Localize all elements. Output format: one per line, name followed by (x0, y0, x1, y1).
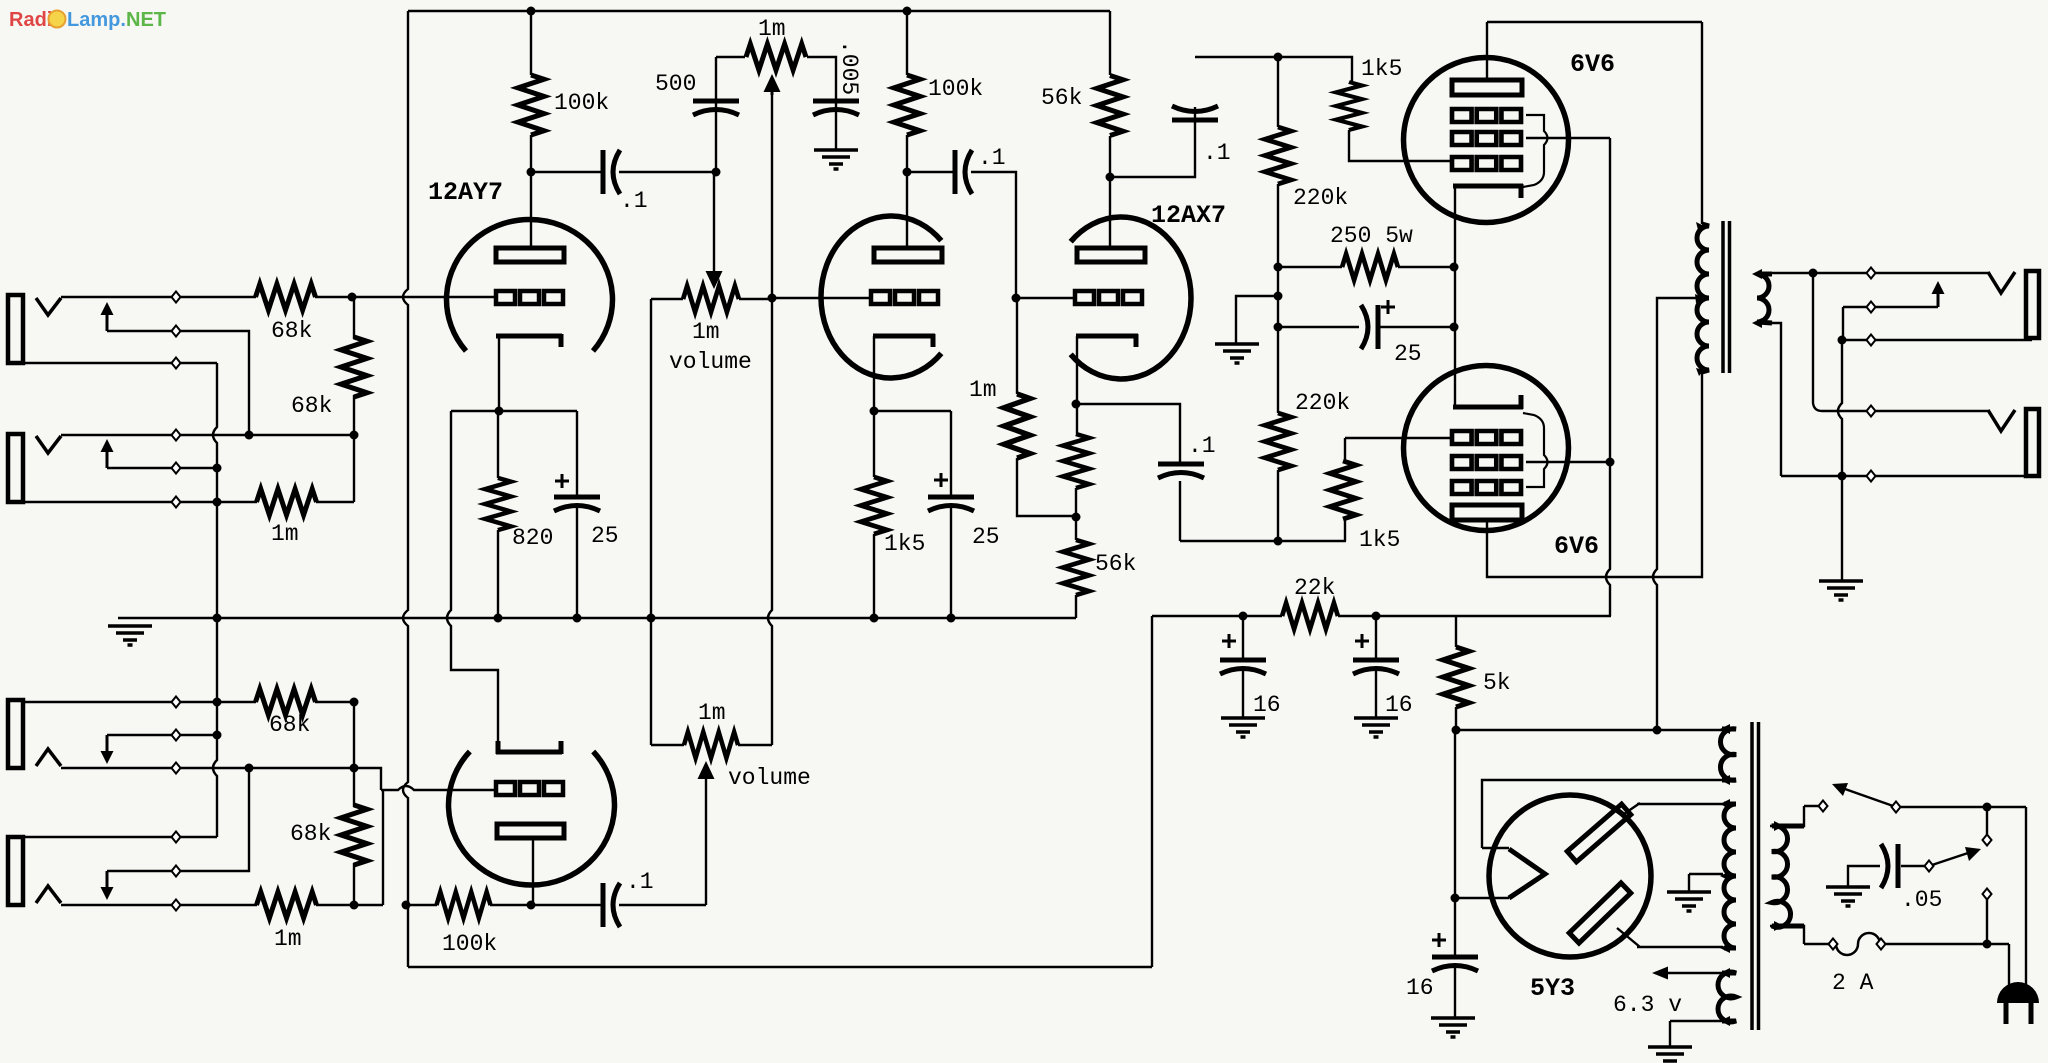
fuse 2A (1836, 933, 1880, 955)
speaker jack1 switch arrow (1937, 293, 1940, 307)
resistor 1m grid leak ch4 (257, 892, 317, 918)
wire PT HV center tap (1689, 874, 1723, 892)
svg-text:68k: 68k (291, 393, 332, 419)
tube V1a plate (496, 248, 564, 262)
wire V1b grid leak vertical (382, 790, 384, 905)
resistor 250 5w (1342, 254, 1398, 280)
node B+ rail taps (527, 7, 536, 16)
svg-text:NET: NET (126, 9, 166, 31)
svg-text:68k: 68k (271, 318, 312, 344)
capacitor 16 filter1 (1220, 660, 1266, 674)
wire 25uF V1a leg (576, 411, 578, 618)
tube V3 grid (1075, 291, 1142, 304)
wire V1b grid with hop at 406 (381, 786, 496, 790)
wire jack2 sleeve row (24, 501, 217, 503)
speaker jack1 sleeve (2026, 271, 2039, 338)
tube V1a 12AY7 envelope (446, 219, 612, 351)
resistor 68k ch3 (256, 689, 316, 715)
svg-text:68k: 68k (290, 821, 331, 847)
wire OT primary bottom to lower plate (1487, 372, 1702, 577)
svg-text:1m: 1m (969, 377, 997, 403)
node volume hot (768, 294, 777, 303)
node 6V6 cathode taps (1450, 263, 1459, 272)
resistor 1k5 V3 cathode (1063, 434, 1089, 488)
wire volume1 wiper stem (713, 172, 715, 272)
svg-text:5k: 5k (1483, 670, 1511, 696)
tube V1b plate (497, 824, 564, 838)
svg-text:1m: 1m (274, 926, 302, 952)
wire V1a cathode leg (498, 336, 499, 618)
ground .05 cap (1826, 887, 1870, 906)
svg-text:220k: 220k (1293, 185, 1348, 211)
output transformer core (1723, 221, 1730, 373)
wire speaker ground vertical with hop at 411 (1838, 307, 1843, 581)
wire 1k5 to 6V6 grid (1349, 130, 1452, 161)
wire 5Y3 plate bottom lead (1617, 928, 1723, 947)
svg-text:1m: 1m (758, 16, 786, 42)
wire V1a cathode row (451, 410, 577, 412)
svg-text:6.3 v: 6.3 v (1613, 992, 1682, 1018)
wire volume1 left (651, 298, 683, 300)
node PI chain taps (1274, 53, 1283, 62)
wire speaker switch row (1843, 306, 1938, 308)
wire B+ bottom bus (408, 966, 1152, 968)
wire V1b plate lead (532, 838, 534, 905)
tube V3 cathode (1076, 334, 1138, 347)
capacitor 25 6V6 bypass (1361, 305, 1378, 349)
wire 25uF V2 leg (950, 411, 952, 618)
wire 6V6 cathodes link (1454, 186, 1456, 407)
node V1a cathode (495, 407, 504, 416)
node ch3 tip (245, 764, 254, 773)
wire lower 6V6 screen lead (1526, 461, 1610, 463)
wire input ch3 switch row (107, 734, 217, 736)
tube 6V6 lower envelope (1404, 366, 1569, 531)
svg-text:.1: .1 (1203, 140, 1231, 166)
input jack2 sleeve (8, 434, 23, 502)
svg-text:.1: .1 (620, 188, 648, 214)
capacitor 16 filter3 (1432, 957, 1478, 971)
wire B+ riser right (1151, 616, 1153, 967)
wire B+1 row to PT (1456, 729, 1722, 731)
capacitor .1 V1a coupling (603, 150, 620, 194)
wire lower speaker jack tip row (1822, 410, 1990, 412)
wire 250 5w row (1278, 266, 1454, 268)
svg-text:.05: .05 (1901, 887, 1942, 913)
svg-text:100k: 100k (928, 76, 983, 102)
ground filter3 (1431, 1018, 1475, 1037)
terminal input diamonds (172, 292, 181, 303)
svg-text:Radi: Radi (9, 9, 52, 31)
speaker jack1 tip (1988, 272, 2015, 293)
resistor 1m V3 grid leak (1004, 394, 1030, 458)
tube V2 plate (874, 248, 942, 262)
svg-text:6V6: 6V6 (1570, 50, 1615, 79)
wire 56k top feed (1109, 11, 1111, 75)
svg-text:2 A: 2 A (1832, 970, 1874, 996)
capacitor 16 filter2 (1353, 660, 1399, 674)
node V1a plate (527, 168, 536, 177)
svg-text:6V6: 6V6 (1554, 532, 1599, 561)
wire 5k leg (1455, 616, 1457, 730)
wire input ch1 tip with 68k gap (61, 296, 496, 298)
node V3 grid (1012, 294, 1021, 303)
node filters (1239, 612, 1248, 621)
tube V2 grid (871, 291, 938, 304)
wire input ch3 sleeve row with 68k gap (24, 701, 354, 703)
wire V1b cathode feed with hop at 618 (447, 411, 498, 741)
speaker jack2 tip (1988, 410, 2015, 431)
volume1 wiper arrow (706, 271, 723, 289)
input jack3 tip (36, 749, 61, 766)
svg-text:1k5: 1k5 (1361, 56, 1402, 82)
svg-text:25: 25 (591, 523, 619, 549)
capacitor .1 V1b coupling (603, 883, 620, 927)
input jack4 tip (36, 886, 61, 903)
node ch1 grid (348, 293, 357, 302)
terminal speaker diamonds (1867, 268, 1876, 279)
wire PT primary bottom (1770, 926, 1833, 944)
svg-text:Lamp.: Lamp. (67, 9, 126, 31)
wire mains fuse row (1881, 943, 2009, 945)
resistor 68k ch3-4 vertical (341, 805, 367, 865)
power transformer core (1752, 722, 1759, 1030)
wire tone wiper stem (771, 95, 773, 298)
resistor 56k V3 tail (1063, 540, 1089, 595)
wire input ch4 switch row (107, 768, 249, 871)
svg-text:56k: 56k (1095, 551, 1136, 577)
node PI out (1274, 537, 1283, 546)
svg-text:volume: volume (669, 349, 752, 375)
input jack2 tip (36, 436, 61, 453)
resistor 220k lower (1265, 413, 1291, 470)
capacitor .05 line (1881, 844, 1898, 888)
tube 6V6 lower cathode (1453, 395, 1523, 409)
wire cap .1 top to PI node (1195, 57, 1352, 82)
svg-text:220k: 220k (1295, 390, 1350, 416)
svg-text:12AX7: 12AX7 (1151, 201, 1226, 230)
input jack4 switch arrow (106, 871, 109, 888)
ground PT 6.3v (1648, 1047, 1692, 1063)
wire 1k5 V2 leg (873, 411, 875, 618)
capacitor .1 V2 coupling (955, 150, 972, 194)
wire OT secondary top to jack (1758, 272, 1990, 274)
resistor 1m grid leak ch1 (257, 489, 317, 515)
capacitor 25 V1 cathode (554, 497, 600, 511)
resistor 22k dropper (1282, 603, 1338, 629)
wire tone pot left (716, 56, 745, 58)
ground speaker (1819, 581, 1863, 600)
wire input ch4 sleeve row (24, 836, 217, 838)
speaker jack2 sleeve (2026, 409, 2039, 476)
wire mains switch row (1896, 806, 2026, 808)
tube 6V6 upper grids (1452, 109, 1521, 122)
wire input ch4 tip row with 1m gap (61, 904, 383, 906)
svg-text:100k: 100k (442, 931, 497, 957)
svg-text:16: 16 (1253, 692, 1281, 718)
wire 56k V3 plate (1109, 136, 1111, 248)
power transformer 6.3v winding (1718, 972, 1736, 1022)
tube V2 envelope (821, 216, 941, 378)
arrow 6.3v indicator (1652, 967, 1668, 980)
tube V3 plate (1077, 248, 1145, 262)
tube 6V6 lower beam link (1523, 413, 1548, 487)
svg-text:.1: .1 (626, 869, 654, 895)
tube 5Y3 plate top (1567, 804, 1631, 862)
wire volume2 wiper stem (705, 778, 707, 905)
power transformer HV winding (1724, 804, 1736, 948)
power transformer primary winding (1772, 826, 1804, 928)
svg-text:5Y3: 5Y3 (1530, 974, 1575, 1003)
logo RadioLamp.NET (9, 9, 166, 31)
wire 68k2 chain vertical (353, 297, 355, 502)
svg-text:25: 25 (1394, 341, 1422, 367)
wire PT 6.3v ground (1670, 1021, 1722, 1047)
node speaker taps (1809, 269, 1818, 278)
potentiometer 1m volume2 (684, 732, 738, 758)
input jack1 switch arrow (106, 314, 109, 331)
wire B+ top rail (408, 10, 1110, 12)
wire input ch3 tip row (61, 768, 381, 790)
wire jack sleeve row lower (1781, 475, 2032, 477)
wire upper 6V6 screen lead (1526, 137, 1610, 139)
wire PT 6.3v row (1655, 972, 1722, 974)
tube V2 cathode (873, 334, 935, 347)
wire lower 6V6 grid (1345, 437, 1452, 439)
capacitor .1 PI top (1172, 106, 1218, 120)
wire 1m grid leak ch1 row (217, 501, 354, 503)
svg-text:1m: 1m (698, 700, 726, 726)
wire B+ left vertical with hops at 297,618,790 (403, 11, 408, 967)
input jack3 sleeve (8, 700, 23, 768)
wire V3 grid (1016, 297, 1075, 299)
wire .1 PI coupling (1076, 404, 1180, 541)
svg-text:16: 16 (1406, 975, 1434, 1001)
tube V1b cathode (496, 741, 562, 754)
ground filter1 (1221, 718, 1265, 737)
input jack1 sleeve (8, 295, 23, 363)
node input ground taps (213, 464, 222, 473)
power transformer 5v winding (1720, 729, 1736, 780)
resistor 5k dropper (1443, 647, 1469, 707)
wire V3 cathode leg (1076, 336, 1077, 618)
input jack2 switch arrow (106, 451, 109, 468)
resistor 1k5 V2 cathode (861, 477, 887, 534)
resistor 56k V3 plate (1097, 76, 1123, 136)
wire tone pot right to .005 (807, 57, 836, 149)
svg-text:56k: 56k (1041, 85, 1082, 111)
capacitor 25 V2 cathode (928, 497, 974, 511)
wire OT secondary bottom (1758, 323, 1781, 476)
svg-text:1k5: 1k5 (1359, 527, 1400, 553)
wire volume2 right (738, 744, 772, 746)
svg-text:250 5w: 250 5w (1330, 223, 1413, 249)
tube V1a grid (496, 291, 563, 304)
wire V1a coupling to cap .1 (531, 171, 716, 173)
wire input ground spine with hops at 435,768 (213, 363, 217, 837)
node ground bus taps (494, 614, 503, 623)
wire plug risers (2009, 807, 2026, 985)
ground main bus (108, 626, 152, 645)
terminal mains diamonds (1819, 801, 1828, 812)
resistor 100k V1a plate (518, 75, 544, 135)
tube V1b 12AY7 envelope (448, 752, 614, 886)
wire PT primary top (1770, 806, 1823, 826)
node mains taps (1983, 803, 1992, 812)
wire screen feed vertical with hop at 577 (1606, 138, 1610, 616)
wire mains switch contacts vertical (1986, 807, 1988, 944)
output transformer primary (1697, 224, 1709, 372)
wire 100k V1a plate (530, 9, 532, 248)
input jack1 tip (36, 298, 61, 315)
svg-text:12AY7: 12AY7 (428, 178, 503, 207)
svg-text:500: 500 (655, 71, 696, 97)
wire B+1 down to 5Y3 filament and 16uF (1454, 730, 1456, 1018)
wire 1m grid leak V3 (1017, 298, 1076, 516)
wire 100k V2 plate (906, 9, 908, 248)
svg-text:1m: 1m (692, 319, 720, 345)
wire ground bus (118, 617, 1076, 619)
wire OT center tap B+ with hop at 577 (1653, 298, 1700, 730)
tube V3 12AX7 envelope (1071, 217, 1191, 379)
mains plug (1997, 982, 2039, 1003)
node V3 cathode (1072, 400, 1081, 409)
mains switch blade1 (1845, 789, 1896, 807)
svg-text:68k: 68k (269, 712, 310, 738)
wire input ch2 tip row (61, 434, 354, 436)
wire OT primary feed (1701, 22, 1703, 224)
tube 6V6 upper beam link (1523, 115, 1548, 187)
wire input ch1 sleeve row (24, 362, 217, 364)
ground .005 (814, 150, 858, 169)
tube 5Y3 plate bottom (1569, 883, 1631, 943)
tube 6V6 upper plate (1452, 80, 1522, 95)
resistor 220k upper (1265, 127, 1291, 184)
tube 6V6 lower grids (1452, 431, 1521, 444)
resistor 68k ch1-2 vertical (341, 337, 367, 397)
volume2 wiper arrow (698, 761, 715, 779)
svg-text:22k: 22k (1294, 575, 1335, 601)
potentiometer 1m tone (746, 44, 806, 70)
tone pot wiper arrow (771, 92, 774, 95)
wire volume2 left (651, 744, 684, 746)
resistor 820 V1 cathode (485, 478, 511, 530)
capacitor .005 tone (813, 101, 859, 115)
tube V1b grid (496, 782, 563, 795)
plus marks (555, 474, 569, 488)
node V1b plate R (402, 901, 411, 910)
wire .05 cap to switch2 (1901, 865, 1929, 867)
wire 100k V1b plate row (406, 904, 531, 906)
tube 6V6 upper cathode (1453, 184, 1523, 198)
node V2 cathode (870, 407, 879, 416)
tube V1a cathode (496, 334, 562, 347)
input jack3 switch arrow (106, 735, 109, 752)
TERMINAL DIAMONDS (172, 268, 1992, 950)
wire V1b coupling cap .1 (531, 904, 706, 906)
wire input ch1 switch row (107, 331, 249, 435)
svg-text:25: 25 (972, 524, 1000, 550)
node V3 plate (1106, 173, 1115, 182)
svg-text:.1: .1 (978, 145, 1006, 171)
wire ground tap 12AX7 area (1236, 296, 1278, 343)
resistor 1k5 upper 6V6 grid (1336, 82, 1362, 130)
output transformer secondary (1757, 274, 1772, 323)
tube 6V6 upper envelope (1404, 58, 1569, 223)
wire 1k5 PI legs (1344, 438, 1346, 541)
svg-text:820: 820 (512, 525, 553, 551)
resistor 100k V2 plate (894, 75, 920, 135)
wire 16uF legs (1243, 616, 1376, 718)
ground 12AX7 divider (1215, 344, 1259, 363)
wire V2 cathode row (874, 336, 951, 411)
node ch4 tip (350, 901, 359, 910)
wire 5Y3 filament top lead (1482, 780, 1722, 848)
svg-text:1k5: 1k5 (884, 531, 925, 557)
wire 5Y3 filament bottom lead (1455, 897, 1509, 899)
resistor 1k5 lower 6V6 grid (1330, 461, 1356, 519)
svg-text:.005: .005 (836, 40, 862, 95)
wire .05 cap ground (1848, 866, 1880, 887)
wire B+2 rail 22k row (1152, 615, 1611, 617)
resistor 68k ch1 (256, 284, 316, 310)
node ch2 tip (350, 431, 359, 440)
node tone/wiper (712, 168, 721, 177)
wire 68k4 chain vertical (353, 702, 355, 905)
wire pots cold ground link (650, 299, 652, 745)
tube 5Y3 envelope (1489, 795, 1651, 957)
input jack4 sleeve (8, 837, 23, 905)
svg-text:16: 16 (1385, 692, 1413, 718)
svg-text:.1: .1 (1188, 433, 1216, 459)
wire 500pF branch (715, 57, 717, 172)
node screens (1606, 458, 1615, 467)
wire volume1 right (739, 298, 772, 300)
wire V2 coupling cap .1 (907, 172, 1016, 298)
capacitor 500 tone (693, 101, 739, 115)
wire input ch2 switch row (107, 467, 217, 469)
wire pots hot link vertical with hop at 618 (768, 298, 772, 745)
capacitor .1 V3 out (1158, 464, 1204, 478)
wire 5Y3 plate top lead (1621, 803, 1723, 816)
tube 5Y3 filament (1509, 849, 1545, 898)
ground filter2 (1354, 718, 1398, 737)
wire PI vertical 220k chain (1277, 57, 1279, 541)
svg-text:100k: 100k (554, 90, 609, 116)
wire V3 plate to cap .1 up (1110, 107, 1195, 177)
node V2 plate (903, 168, 912, 177)
wire jack1 sleeve row (1842, 339, 2032, 341)
mains switch blade2 (1929, 853, 1968, 866)
wire PI out row (1180, 540, 1346, 542)
potentiometer 1m volume1 (683, 286, 739, 312)
wire speaker tap vertical (1813, 273, 1822, 411)
wire V2 grid (772, 297, 871, 299)
resistor 100k V1b plate (437, 892, 491, 918)
wire upper 6V6 plate top (1487, 22, 1702, 80)
svg-text:volume: volume (728, 765, 811, 791)
svg-text:1m: 1m (271, 521, 299, 547)
tube 6V6 lower plate (1452, 505, 1522, 520)
ground PT center tap (1667, 892, 1711, 911)
wire 25uF PI row (1278, 326, 1454, 328)
